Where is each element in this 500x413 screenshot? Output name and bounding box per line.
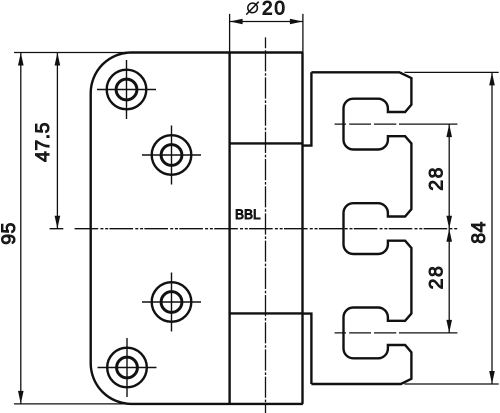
barrel left edge	[228, 53, 230, 404]
dimension 28 lower arrows	[446, 229, 452, 333]
barrel joint line upper	[230, 142, 303, 144]
hinge leaf plate outline	[91, 53, 303, 404]
comb frame part outline with three hooks	[311, 72, 411, 384]
hook1 centerline	[335, 123, 458, 125]
diameter 20 text	[246, 2, 259, 15]
barrel right edge	[301, 53, 303, 404]
bottom extension line left	[14, 403, 131, 405]
svg-text:BBL: BBL	[235, 207, 261, 222]
diameter 20 arrows	[230, 19, 303, 25]
diameter 20 extension lines	[230, 14, 303, 53]
svg-text:20: 20	[262, 0, 287, 20]
dimension 84 line	[491, 72, 493, 384]
hole H2 outer circle	[152, 135, 192, 175]
hole H1 inner circle	[116, 79, 137, 100]
svg-text:28: 28	[426, 265, 448, 290]
diameter 20 dimension line	[230, 21, 303, 23]
dimension 95 line	[20, 53, 22, 404]
dimension 84 extension lines	[405, 72, 499, 384]
hole H3 outer circle	[152, 282, 192, 322]
dimension 84 arrows	[489, 72, 495, 384]
step upper barrel-to-comb	[303, 72, 312, 145]
step lower barrel-to-comb	[303, 314, 312, 384]
hole H3 inner circle	[161, 292, 182, 313]
svg-text:95: 95	[0, 222, 20, 245]
dimension 28 lower line	[448, 229, 450, 333]
dimension 28 upper line	[448, 124, 450, 229]
svg-text:47.5: 47.5	[32, 122, 54, 162]
hole H4 inner circle	[117, 357, 138, 378]
hole H4 outer circle	[107, 348, 147, 388]
dimension 28 upper arrows	[446, 124, 452, 229]
hole H2 inner circle	[161, 145, 182, 166]
svg-text:28: 28	[426, 166, 448, 191]
hole H1 outer circle	[107, 70, 147, 110]
vertical barrel centerline	[265, 37, 267, 413]
dimension 47.5 line	[56, 53, 58, 229]
top extension line left	[14, 52, 131, 54]
horizontal main centerline	[50, 228, 458, 230]
dimension 95 arrows	[18, 53, 24, 404]
hook3 centerline	[335, 332, 458, 334]
hole H3 crosshair	[142, 273, 201, 332]
hole H4 crosshair	[98, 338, 157, 397]
hole H1 crosshair	[97, 60, 156, 119]
barrel joint line lower	[230, 312, 303, 314]
dimension 47.5 arrows	[55, 53, 61, 229]
hole H2 crosshair	[142, 126, 201, 185]
svg-text:84: 84	[468, 221, 490, 244]
